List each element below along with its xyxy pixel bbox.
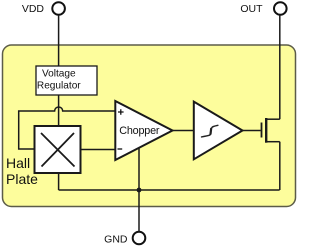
svg-text:Chopper: Chopper (119, 125, 160, 137)
svg-text:Voltage: Voltage (42, 68, 76, 79)
terminal GND (133, 232, 146, 245)
wire schmitt to gate (243, 130, 261, 132)
ground rail (59, 189, 280, 191)
wire regulator to hall plate bias (58, 95, 60, 126)
wire source to ground rail (279, 142, 281, 190)
IC body (yellow block) (3, 45, 296, 207)
node ground junction (137, 188, 142, 193)
wire hall plate to chopper - input (81, 149, 116, 151)
wire hall plate to chopper + input (with hop) (19, 107, 116, 149)
chopper amplifier U2 (115, 101, 172, 160)
svg-text:GND: GND (104, 234, 128, 246)
wire hall plate to ground rail (58, 173, 60, 190)
wire chopper to ground rail (138, 148, 140, 190)
wire chopper to schmitt trigger (173, 130, 194, 132)
terminal OUT (274, 2, 287, 15)
transistor Q1 (output MOSFET) (262, 118, 280, 143)
voltage regulator U1 (36, 66, 97, 95)
terminal VDD (52, 2, 65, 15)
wire VDD to regulator (58, 15, 60, 66)
svg-text:OUT: OUT (240, 3, 263, 15)
wire drain to OUT terminal (279, 15, 281, 119)
svg-text:VDD: VDD (22, 3, 45, 15)
schmitt trigger U3 (194, 102, 243, 160)
svg-text:Hall: Hall (6, 155, 30, 171)
label Hall Plate (6, 155, 38, 187)
svg-text:Regulator: Regulator (37, 81, 81, 92)
wire ground rail to GND terminal (138, 190, 140, 232)
hall plate X1 (35, 126, 81, 173)
svg-text:Plate: Plate (6, 171, 38, 187)
